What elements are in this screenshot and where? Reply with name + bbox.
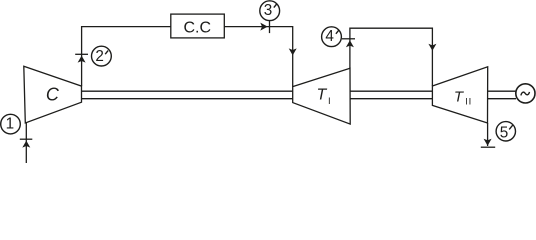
svg-text:4: 4 [325,28,334,45]
svg-text:T: T [454,88,465,105]
svg-text:C.C: C.C [184,19,212,36]
svg-text:C: C [46,84,60,104]
svg-text:1: 1 [6,116,15,133]
svg-text:2: 2 [95,48,104,65]
svg-text:II: II [465,96,472,107]
svg-text:3: 3 [264,2,273,19]
svg-text:I: I [328,96,331,107]
svg-text:T: T [317,87,328,104]
svg-text:5: 5 [500,124,509,141]
